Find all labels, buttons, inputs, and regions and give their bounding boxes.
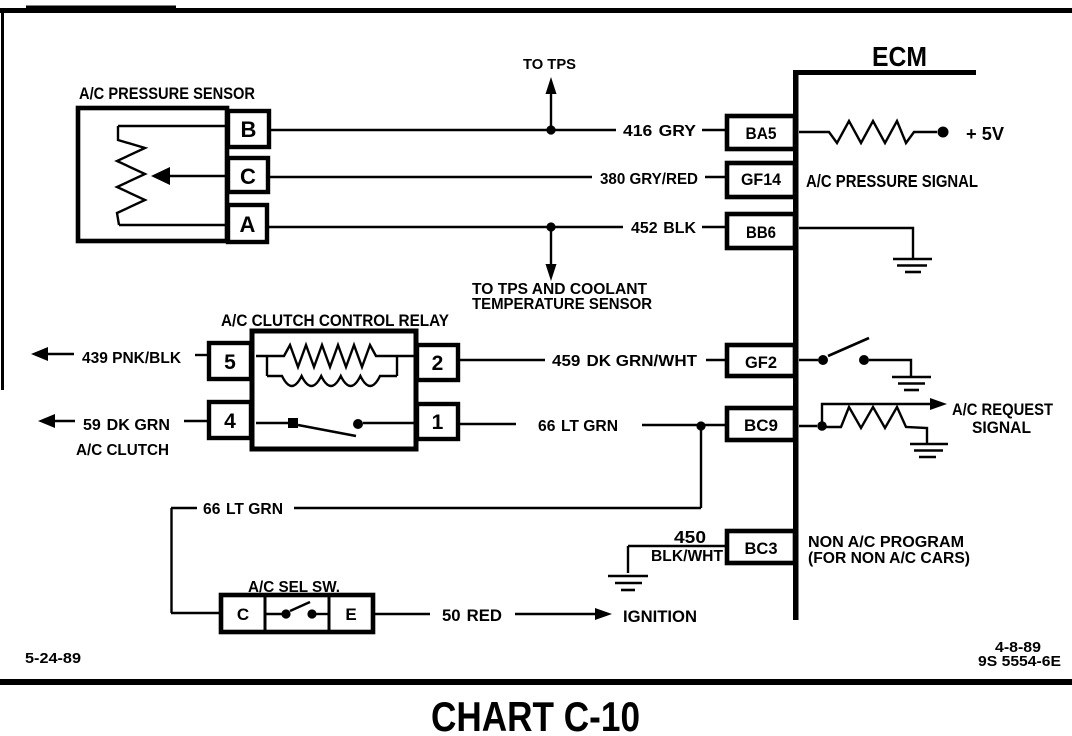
relay pin 5: [209, 343, 251, 379]
svg-text:380 GRY/RED: 380 GRY/RED: [600, 171, 698, 188]
junction node to TPS: [546, 125, 555, 134]
wire 459 DK GRN/WHT: [458, 359, 727, 361]
svg-text:NON A/C PROGRAM: NON A/C PROGRAM: [808, 534, 964, 551]
svg-text:450: 450: [674, 527, 706, 547]
node +5V: [938, 127, 949, 138]
svg-text:ECM: ECM: [872, 41, 927, 72]
A/C request signal arrow: [822, 398, 947, 426]
svg-text:416 GRY: 416 GRY: [623, 123, 696, 140]
svg-text:BLK/WHT: BLK/WHT: [651, 548, 724, 565]
ECM connector GF14: [727, 163, 795, 197]
svg-text:BB6: BB6: [746, 223, 776, 242]
svg-text:59 DK GRN: 59 DK GRN: [83, 417, 170, 434]
potentiometer element inside sensor: [117, 126, 225, 225]
svg-text:TEMPERATURE SENSOR: TEMPERATURE SENSOR: [472, 296, 652, 313]
junction node after BC9: [799, 421, 827, 431]
wire 66 LT GRN from relay pin 1: [458, 424, 727, 425]
svg-text:A/C CLUTCH CONTROL RELAY: A/C CLUTCH CONTROL RELAY: [221, 312, 449, 330]
svg-text:E: E: [345, 605, 356, 624]
ground for GF2 switch: [892, 377, 931, 390]
wire 66 LT GRN branch down and left: [171, 426, 701, 613]
sensor pin A: [228, 205, 267, 242]
svg-text:9S 5554-6E: 9S 5554-6E: [978, 653, 1061, 670]
svg-text:+ 5V: + 5V: [966, 124, 1004, 144]
svg-text:5: 5: [224, 351, 236, 374]
wire 380 GRY/RED from pin C: [268, 176, 727, 178]
A/C clutch control relay box: [252, 331, 416, 449]
svg-text:A/C PRESSURE SENSOR: A/C PRESSURE SENSOR: [79, 85, 255, 103]
svg-text:5-24-89: 5-24-89: [25, 650, 81, 667]
A/C pressure sensor box: [78, 108, 227, 241]
junction node to coolant sensor: [546, 222, 555, 231]
wire BB6 to ground: [799, 228, 913, 259]
svg-text:IGNITION: IGNITION: [623, 608, 697, 626]
ground for BB6: [893, 259, 932, 272]
svg-text:B: B: [241, 117, 257, 142]
arrow to ignition: [515, 608, 612, 620]
arrow to TPS and coolant temperature sensor: [546, 227, 557, 281]
ground for BC9 resistor: [910, 444, 948, 457]
A/C selector switch box: [221, 595, 373, 632]
selector switch pin C: [237, 597, 265, 630]
ECM connector GF2: [727, 345, 795, 376]
wire 439 PNK/BLK with arrow: [31, 347, 209, 361]
svg-text:A/C REQUEST: A/C REQUEST: [952, 400, 1054, 419]
ECM connector BC9: [727, 408, 795, 440]
svg-text:A/C PRESSURE SIGNAL: A/C PRESSURE SIGNAL: [806, 171, 978, 191]
svg-text:C: C: [237, 605, 249, 624]
wire 59 DK GRN with arrow: [38, 414, 209, 428]
wire 50 RED: [373, 613, 430, 615]
label NON A/C PROGRAM (FOR NON A/C CARS): [808, 534, 970, 567]
wire 450 BLK/WHT to ground: [628, 546, 727, 573]
svg-text:(FOR NON A/C CARS): (FOR NON A/C CARS): [808, 550, 970, 567]
svg-text:2: 2: [432, 352, 444, 375]
svg-text:BC3: BC3: [745, 539, 778, 558]
svg-text:1: 1: [432, 411, 444, 434]
svg-text:66 LT GRN: 66 LT GRN: [203, 501, 283, 518]
relay coil winding: [256, 345, 416, 386]
svg-text:BA5: BA5: [746, 124, 777, 143]
svg-text:BC9: BC9: [744, 416, 778, 435]
TO TPS arrow: [546, 77, 557, 130]
resistor to ground after BC9: [826, 407, 927, 443]
wiper arrow: [151, 167, 225, 185]
switch inside ECM after GF2: [799, 338, 911, 377]
svg-text:439 PNK/BLK: 439 PNK/BLK: [82, 350, 181, 367]
svg-text:A/C CLUTCH: A/C CLUTCH: [76, 442, 169, 459]
junction node 66 LT GRN: [696, 421, 705, 430]
svg-text:SIGNAL: SIGNAL: [972, 418, 1031, 437]
svg-text:459 DK GRN/WHT: 459 DK GRN/WHT: [552, 353, 697, 370]
svg-text:A: A: [240, 212, 256, 237]
selector switch contact: [265, 602, 329, 619]
svg-text:GF14: GF14: [741, 170, 781, 189]
ECM connector BB6: [727, 214, 795, 248]
relay pin 1: [417, 404, 458, 439]
svg-text:66 LT GRN: 66 LT GRN: [538, 418, 618, 435]
svg-text:4: 4: [224, 410, 236, 433]
svg-text:TO TPS: TO TPS: [523, 57, 576, 73]
relay pin 2: [417, 345, 458, 380]
svg-text:452 BLK: 452 BLK: [631, 220, 696, 237]
label 450 BLK/WHT: [651, 527, 724, 565]
selector switch pin E: [329, 597, 357, 630]
relay pin 4: [209, 402, 251, 438]
label TO TPS AND COOLANT TEMPERATURE SENSOR: [472, 281, 652, 313]
svg-text:50 RED: 50 RED: [442, 607, 502, 625]
resistor to +5V: [799, 121, 937, 143]
sensor pin B: [228, 111, 269, 147]
svg-text:C: C: [240, 164, 256, 189]
svg-text:GF2: GF2: [745, 353, 777, 372]
label A/C REQUEST SIGNAL: [952, 400, 1054, 437]
wire 452 BLK from pin A: [267, 226, 727, 228]
ECM boundary line: [793, 70, 976, 620]
ECM connector BC3: [727, 531, 795, 563]
ground for 450 BLK/WHT: [608, 576, 648, 590]
svg-text:CHART C-10: CHART C-10: [431, 693, 640, 736]
wire 416 GRY from pin B: [269, 129, 727, 131]
ECM connector BA5: [727, 116, 795, 149]
relay switch contact: [256, 418, 416, 436]
sensor pin C: [228, 158, 268, 192]
